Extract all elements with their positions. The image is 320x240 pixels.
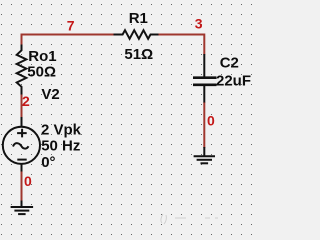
- svg-text:Ro1: Ro1: [28, 48, 56, 65]
- svg-text:3: 3: [195, 15, 203, 31]
- svg-text:R1: R1: [129, 10, 148, 27]
- svg-text:0°: 0°: [41, 154, 55, 171]
- svg-text:0: 0: [24, 173, 32, 189]
- svg-text:22uF: 22uF: [216, 73, 251, 90]
- svg-text:51Ω: 51Ω: [124, 46, 153, 63]
- svg-text:0: 0: [207, 112, 215, 128]
- svg-text:C2: C2: [220, 55, 239, 72]
- svg-text:2 Vpk: 2 Vpk: [41, 121, 82, 138]
- svg-text:7: 7: [67, 17, 75, 33]
- svg-text:2: 2: [22, 93, 30, 109]
- svg-text:V2: V2: [41, 86, 59, 103]
- svg-text:50Ω: 50Ω: [27, 64, 56, 81]
- svg-text:50 Hz: 50 Hz: [41, 137, 80, 154]
